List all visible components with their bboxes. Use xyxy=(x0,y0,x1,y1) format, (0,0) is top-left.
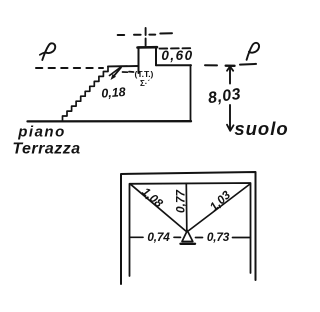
svg-text:suolo: suolo xyxy=(234,118,288,139)
plan inner wall xyxy=(130,183,251,276)
plan diagonal right 1,03 xyxy=(189,184,250,231)
annotation dashes xyxy=(123,71,128,73)
svg-text:1,03: 1,03 xyxy=(207,188,234,214)
roofline right segment xyxy=(156,64,191,66)
svg-text:0,74: 0,74 xyxy=(147,230,170,244)
arrow to step xyxy=(113,68,121,78)
building right edge xyxy=(190,65,192,121)
annotation slash tick xyxy=(110,67,122,76)
svg-text:piano: piano xyxy=(17,124,66,141)
node P left label xyxy=(42,43,55,60)
svg-text:0,77: 0,77 xyxy=(174,189,188,213)
svg-text:1,08: 1,08 xyxy=(139,185,166,211)
dashed level line right xyxy=(205,64,217,66)
wire roofline left segment xyxy=(108,65,138,67)
svg-text:(T.T.): (T.T.) xyxy=(135,69,154,79)
svg-text:8,03: 8,03 xyxy=(207,86,242,107)
plan vertical 0,77 xyxy=(185,183,188,230)
chimney block xyxy=(139,47,157,73)
station triangle xyxy=(182,231,193,242)
plan horizontal dimension line xyxy=(130,236,143,238)
svg-text:0,18: 0,18 xyxy=(101,85,126,101)
centerline cross above chimney xyxy=(145,28,147,46)
dashed line above 0,60 xyxy=(160,47,191,49)
svg-text:0,60: 0,60 xyxy=(161,48,193,63)
plan diagonal left 1,08 xyxy=(130,184,186,231)
terrace floor line xyxy=(28,120,192,123)
svg-text:0,73: 0,73 xyxy=(207,230,230,244)
staircase xyxy=(63,67,109,122)
node P right label xyxy=(247,43,259,60)
dimension arrow 8,03 down xyxy=(229,105,231,130)
svg-text:Terrazza: Terrazza xyxy=(12,141,80,158)
wire dashed level line left xyxy=(36,67,103,69)
svg-text:Σ·´: Σ·´ xyxy=(140,79,150,88)
dimension arrow 8,03 up xyxy=(226,64,235,67)
plan outer wall xyxy=(121,172,256,284)
